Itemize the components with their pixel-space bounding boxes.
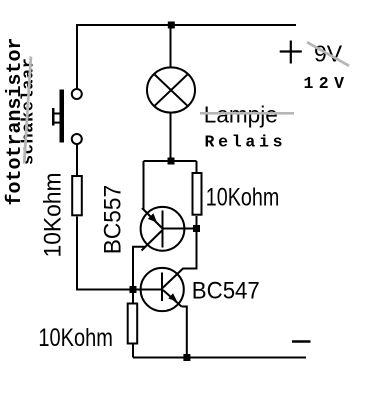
svg-text:10Kohm: 10Kohm [38, 324, 113, 352]
junction: Q1 base node [193, 225, 200, 232]
junction: Q2 base node [130, 286, 137, 293]
Q1 base lead [163, 228, 197, 230]
plus symbol (+ supply) [280, 41, 302, 64]
wire: R1 bottom to Q2 base [77, 217, 162, 290]
transistor Q2 BC547 circle [141, 268, 184, 311]
strike over 9V [307, 42, 349, 66]
wire: +V top rail [76, 24, 296, 26]
wire: mid node to Q1 emitter [143, 161, 145, 210]
switch S1 actuator link 1 [52, 113, 60, 115]
svg-text:BC547: BC547 [192, 277, 260, 304]
wire: Q2 base node to R3 [132, 290, 134, 303]
wire: ground rail [133, 357, 306, 359]
strike over schakelaar [24, 57, 31, 164]
junction: mid node [168, 158, 175, 165]
wire: mid node horizontal [144, 160, 197, 162]
svg-text:12V: 12V [304, 74, 345, 93]
wire: switch bottom to R1 top [76, 145, 78, 176]
wire: lamp bottom to mid node [170, 114, 172, 162]
Q2 base bar [161, 273, 163, 302]
Q2 emitter [163, 290, 182, 307]
transistor Q1 BC557 circle [141, 207, 185, 251]
wire: mid node to R2 top [196, 161, 198, 172]
switch S1 terminal bottom circle [72, 134, 82, 144]
wire: R2 bottom to Q1 base node [196, 216, 198, 229]
wire: Q2 emitter to ground rail [182, 307, 187, 358]
switch S1 actuator link 2 [52, 122, 60, 124]
wire: junction to lamp top [170, 25, 172, 68]
junction: top rail / lamp [168, 22, 175, 29]
resistor R1 10Kohm [72, 176, 82, 215]
Q2 emitter arrow (NPN) [168, 293, 177, 302]
svg-text:BC557: BC557 [100, 185, 127, 255]
resistor R2 10Kohm [193, 173, 202, 215]
resistor R3 10Kohm [128, 304, 138, 344]
wire: base node down to Q2 collector [183, 229, 197, 269]
strike over Lampje [200, 112, 294, 115]
Q2 collector [163, 269, 184, 289]
junction: emitter / ground rail [183, 354, 190, 361]
switch S1 actuator stem [52, 108, 55, 126]
minus symbol (- supply) [292, 340, 311, 343]
lamp L1 cross [154, 74, 189, 107]
switch S1 contact bar [60, 90, 65, 143]
switch S1 terminal top circle [72, 89, 82, 99]
svg-text:10Kohm: 10Kohm [40, 173, 67, 258]
svg-text:10Kohm: 10Kohm [206, 183, 279, 211]
wire: top rail left drop to switch [76, 25, 78, 89]
lamp L1 circle [147, 67, 195, 112]
wire: R3 bottom to rail [132, 345, 134, 358]
Q1 emitter arrow (PNP) [148, 213, 157, 222]
Q1 collector [133, 230, 163, 287]
Q1 emitter [142, 208, 162, 228]
Q1 base bar [162, 211, 164, 248]
